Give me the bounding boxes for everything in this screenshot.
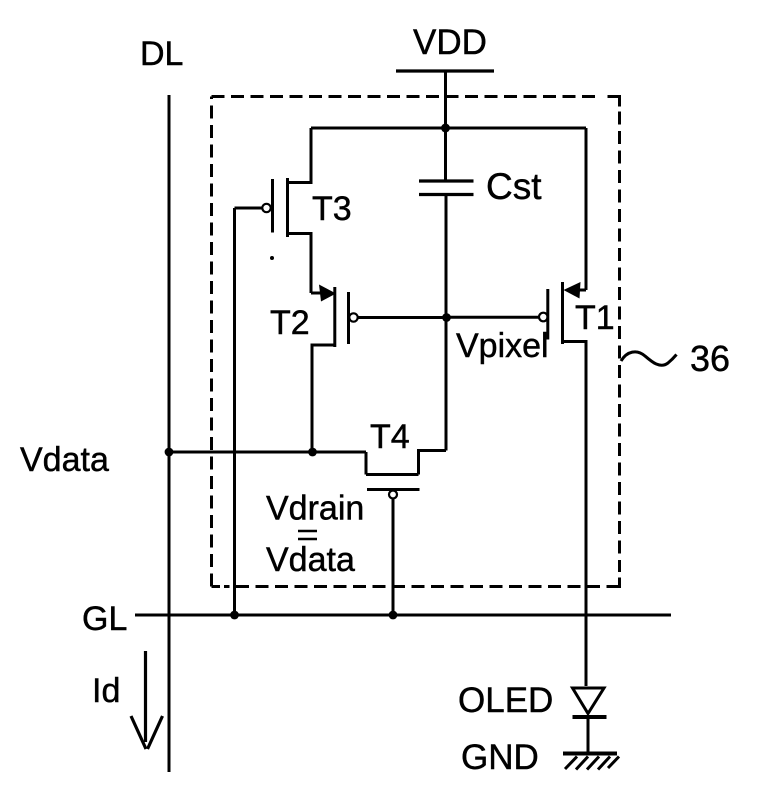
ground GND symbol — [563, 754, 619, 770]
node junction dot T4 gate-GL — [389, 611, 398, 620]
T2 gate bubble — [349, 313, 357, 321]
pixel circuit dashed boundary box 36 — [212, 97, 620, 587]
T4 gate bubble — [389, 491, 397, 499]
wire Vdata horizontal — [169, 451, 366, 454]
T1 gate wire — [447, 316, 540, 319]
current Id arrow — [131, 651, 163, 749]
svg-text:T1: T1 — [575, 299, 615, 337]
T3 gate bar — [271, 179, 274, 233]
transistor T4 — [366, 451, 446, 616]
svg-text:Vdrain: Vdrain — [266, 490, 364, 528]
svg-text:GND: GND — [461, 738, 539, 777]
T1 drain lead with arrow — [570, 289, 586, 292]
T1 gate bar — [546, 289, 549, 340]
svg-text:Vpixel: Vpixel — [456, 327, 549, 365]
gate line GL — [135, 614, 671, 617]
svg-text:T4: T4 — [370, 418, 410, 456]
svg-text:OLED: OLED — [458, 681, 553, 720]
wire VDD stem — [444, 72, 447, 128]
T3 source lead — [288, 234, 312, 294]
transistor T3 — [235, 128, 312, 293]
Cst bottom plate — [419, 193, 474, 196]
Cst top plate — [419, 179, 474, 182]
T1 source lead — [563, 342, 587, 687]
transistor T1 — [447, 128, 587, 686]
data line DL (vertical wire) — [168, 95, 171, 772]
T2 gate bar — [347, 292, 350, 344]
wire center vertical Cst to T4 — [445, 195, 448, 451]
transistor T2 — [311, 285, 358, 453]
svg-text:Id: Id — [92, 672, 120, 710]
T4 gate bar — [367, 488, 420, 491]
stray mark dot — [270, 256, 274, 260]
OLED cathode bar — [573, 715, 607, 719]
node Vpixel junction dot — [442, 313, 451, 322]
node junction dot T3 gate-GL — [230, 611, 239, 620]
T1 channel — [561, 282, 564, 344]
svg-text:T3: T3 — [312, 190, 352, 228]
T2 source lead — [312, 345, 335, 452]
T4 gate stem to GL — [392, 499, 395, 616]
svg-text:Vdata: Vdata — [266, 541, 355, 579]
T1 gate bubble — [539, 313, 548, 322]
T3 gate wire — [235, 207, 263, 210]
svg-text:Cst: Cst — [486, 166, 542, 207]
power supply VDD bar — [396, 69, 494, 72]
node junction dot T2 source-Vdata — [308, 448, 317, 457]
T3 channel — [286, 178, 289, 237]
OLED anode triangle — [573, 688, 605, 714]
T3 gate bubble — [262, 204, 270, 212]
T4 left lead — [365, 452, 368, 475]
capacitor Cst — [419, 128, 474, 195]
equals sign — [298, 531, 317, 539]
node junction dot VDD rail — [441, 124, 450, 133]
T2 channel — [333, 287, 336, 347]
svg-text:GL: GL — [82, 600, 127, 638]
svg-text:Vdata: Vdata — [20, 441, 109, 479]
svg-text:36: 36 — [690, 338, 730, 379]
T2 drain lead with arrow — [311, 292, 327, 295]
wire T2 gate to Vpixel node — [358, 316, 446, 319]
diode OLED — [573, 688, 607, 754]
squiggle leader for 36 — [621, 352, 677, 365]
wire top VDD rail inside box — [311, 127, 586, 130]
Cst top stem — [444, 128, 447, 181]
wire T3 gate to GL — [233, 208, 236, 615]
T4 channel — [366, 473, 419, 476]
svg-text:T2: T2 — [270, 304, 310, 342]
label Vdrain = Vdata — [266, 490, 364, 580]
T3 drain lead — [288, 128, 312, 183]
node junction dot DL-Vdata — [165, 448, 174, 457]
svg-text:DL: DL — [140, 35, 183, 73]
OLED stem to ground — [587, 717, 590, 754]
T4 right lead — [419, 451, 447, 475]
svg-text:VDD: VDD — [413, 23, 487, 62]
